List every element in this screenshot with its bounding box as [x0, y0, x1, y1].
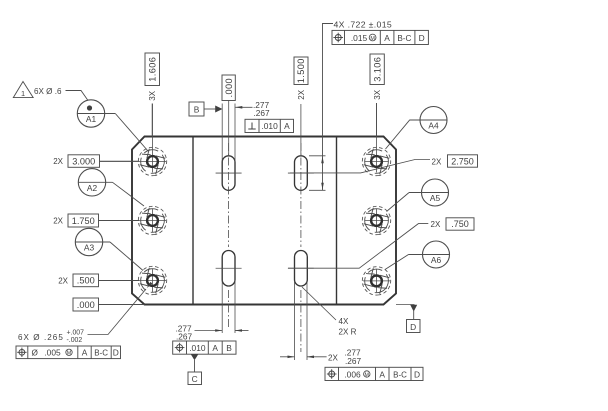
basic dim 2X .500 (hole A3 row): [58, 274, 98, 287]
extension line right slot centerline upper: [300, 104, 302, 156]
slot top-left (datum B feature): [216, 156, 242, 191]
svg-text:B-C: B-C: [94, 349, 108, 358]
svg-text:A2: A2: [87, 183, 98, 193]
svg-text:2X: 2X: [53, 217, 63, 226]
balloon A6: [409, 241, 450, 268]
feature control frame position dia .005 M A B-C D: [16, 346, 121, 359]
svg-text:3.000: 3.000: [72, 156, 95, 166]
svg-text:2X: 2X: [53, 157, 63, 166]
leader balloon A2 to hole A2: [113, 182, 145, 206]
leader .500 to hole A3: [99, 280, 140, 282]
datum D symbol: [396, 305, 420, 333]
svg-text:.000: .000: [77, 300, 95, 310]
svg-text:C: C: [192, 374, 198, 384]
leader balloon A4 to hole A4: [386, 120, 410, 149]
leader balloon A1 to hole A1: [115, 114, 148, 152]
svg-text:.010: .010: [261, 121, 278, 131]
hole A1 (6X .265): [100, 104, 169, 178]
svg-text:.005: .005: [44, 348, 61, 358]
extension line bottom-left slot left edge: [221, 280, 223, 333]
dim 2X 2.750 (top slot center height): [290, 155, 478, 173]
svg-text:2X: 2X: [297, 89, 306, 99]
svg-text:3.106: 3.106: [372, 57, 382, 82]
svg-text:D: D: [113, 348, 119, 358]
svg-text:D: D: [410, 322, 416, 332]
svg-text:D: D: [419, 33, 425, 43]
svg-text:1: 1: [21, 89, 25, 98]
svg-text:A5: A5: [430, 193, 441, 203]
svg-text:1.606: 1.606: [147, 57, 157, 82]
svg-text:A3: A3: [84, 243, 95, 253]
svg-text:6X Ø .6: 6X Ø .6: [34, 87, 62, 96]
svg-text:.500: .500: [77, 276, 95, 286]
svg-text:A: A: [284, 121, 290, 131]
svg-text:2X R: 2X R: [339, 328, 357, 337]
balloon A2: [78, 169, 112, 196]
svg-text:+.007: +.007: [67, 329, 85, 336]
leader balloon A5 to hole A5: [387, 193, 409, 212]
hole A2: [99, 204, 169, 237]
svg-text:.015: .015: [351, 33, 368, 43]
svg-text:A: A: [379, 369, 385, 379]
svg-text:M: M: [370, 36, 375, 42]
extension line bottom-right slot right edge: [306, 282, 308, 360]
svg-text:.267: .267: [345, 356, 362, 366]
extension line 3.106 to hole A4 column: [376, 103, 378, 137]
balloon A5: [409, 179, 449, 206]
datum C symbol: [188, 354, 202, 384]
plate outline: [132, 137, 396, 305]
centerline right slot column lower: [300, 290, 302, 352]
svg-text:.006: .006: [344, 369, 361, 379]
svg-text:2X: 2X: [58, 276, 68, 285]
svg-text:4X .722 ±.015: 4X .722 ±.015: [334, 20, 393, 30]
balloon A4: [410, 107, 447, 134]
datum B symbol: [189, 102, 223, 116]
svg-text:D: D: [414, 369, 420, 379]
basic dim .000 (bottom edge): [73, 298, 99, 311]
svg-text:3X: 3X: [148, 90, 157, 100]
svg-text:A: A: [384, 33, 390, 43]
centerline left slot column lower: [228, 290, 230, 327]
svg-text:2X: 2X: [432, 158, 442, 167]
svg-text:M: M: [365, 372, 370, 378]
dim 2X .750 (bottom slot center height): [288, 218, 474, 268]
balloon A1: [77, 100, 115, 127]
svg-text:.267: .267: [176, 332, 193, 342]
svg-text:.750: .750: [451, 219, 469, 229]
extension line bottom-left slot right edge: [234, 280, 236, 333]
svg-text:2X: 2X: [328, 353, 339, 362]
basic dim 2X 1.500 (right slot column): [294, 57, 308, 100]
slot top-right: [288, 156, 314, 191]
basic dim 3X 1.606 (left hole column): [145, 53, 160, 101]
basic dim 3X 3.106 (right hole column): [370, 54, 384, 100]
svg-text:B: B: [194, 105, 200, 115]
svg-text:A4: A4: [428, 121, 439, 131]
feature control frame position .006 M A B-C D: [325, 367, 423, 380]
svg-text:A6: A6: [431, 255, 442, 265]
flag note triangle 1: [13, 82, 33, 98]
feature control frame position .015 M A B-C D: [332, 30, 428, 44]
svg-text:Ø: Ø: [32, 349, 39, 358]
leader balloon A3 to hole A3: [110, 242, 143, 271]
plate internal edge right: [336, 137, 338, 305]
extension line left slot right edge: [234, 104, 236, 163]
svg-text:3X: 3X: [373, 89, 382, 99]
svg-text:.000: .000: [224, 78, 234, 97]
svg-text:6X Ø .265: 6X Ø .265: [18, 333, 64, 342]
leader .000 to bottom edge: [99, 304, 145, 306]
leader from note to balloon A1: [66, 91, 89, 101]
svg-text:B-C: B-C: [397, 34, 411, 43]
slot bottom-right: [288, 251, 314, 287]
extension line left slot centerline upper: [228, 101, 230, 157]
svg-text:B: B: [226, 343, 232, 353]
leader 3.000 to hole A1: [100, 160, 140, 162]
centerline left slot column: [228, 143, 230, 247]
svg-text:2X: 2X: [431, 220, 441, 229]
extension line bottom-right slot left edge: [294, 282, 296, 360]
svg-text:A1: A1: [86, 114, 97, 124]
svg-text:.267: .267: [254, 108, 271, 118]
balloon A3: [75, 228, 110, 255]
dim .277/.267 bottom-left slot width: [176, 324, 249, 342]
basic dim .000 (left slot column B): [222, 75, 235, 101]
leader balloon A6 to hole A6: [385, 255, 409, 270]
note 4X .722 +-.015: [323, 20, 393, 45]
plate internal edge left: [192, 137, 194, 305]
dim .277/.267 top slot width: [235, 100, 270, 118]
feature control frame position .010 A B: [173, 341, 236, 354]
extension line left slot left edge (datum B attach): [221, 104, 223, 163]
svg-text:-.002: -.002: [67, 337, 83, 344]
dim 2X .277/.267 bottom-right slot width: [280, 348, 362, 367]
leader 1.750 to hole A2: [99, 220, 140, 222]
centerline right slot column: [300, 143, 302, 247]
svg-text:A: A: [212, 343, 218, 353]
basic dim 2X 3.000 (hole A1 row): [53, 155, 99, 168]
extension line 1.606 to hole A1 column: [151, 104, 153, 137]
hole A6: [360, 264, 393, 297]
hole A5: [360, 204, 393, 237]
svg-text:1.500: 1.500: [296, 58, 306, 83]
dim line .722 top-right slot length: [309, 45, 326, 190]
note 4X 2X R (slot end radii): [302, 287, 357, 337]
basic dim 2X 1.750 (hole A2 row): [53, 214, 98, 227]
svg-text:A: A: [82, 348, 88, 358]
hole A4: [360, 103, 393, 178]
svg-text:B-C: B-C: [393, 370, 407, 379]
note 6X dia .265 +.007 -.002: [18, 282, 152, 344]
svg-text:4X: 4X: [339, 317, 350, 326]
svg-text:2.750: 2.750: [451, 156, 474, 166]
svg-text:M: M: [67, 351, 72, 357]
feature control frame perpendicularity .010 A: [245, 119, 294, 132]
slot bottom-left (datum C feature): [216, 251, 242, 287]
hole A3: [99, 264, 169, 297]
svg-text:1.750: 1.750: [72, 216, 95, 226]
svg-text:.010: .010: [189, 343, 206, 353]
